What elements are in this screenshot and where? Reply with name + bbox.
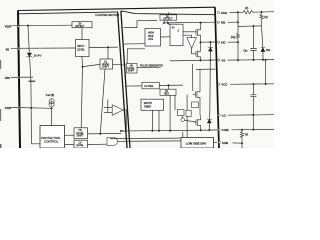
node CSH/R1	[261, 11, 263, 13]
IC package right border	[215, 7, 219, 148]
wire R2 to edge	[253, 11, 274, 14]
wire U11 to driver T1	[183, 35, 192, 37]
node VS 263	[262, 59, 264, 61]
wire HB to vertical	[228, 21, 238, 23]
svg-text:SIDE: SIDE	[148, 36, 154, 38]
node COM 253	[252, 129, 254, 131]
wire COM to edge	[232, 128, 275, 130]
wire LO to edge	[228, 114, 274, 117]
zener diode D1 10.4V	[26, 53, 32, 58]
svg-text:CSH: CSH	[221, 11, 227, 15]
wire comparator feed vertical	[107, 100, 109, 113]
diode DBS wire bottom	[262, 52, 264, 60]
driver triangle T1	[187, 38, 197, 49]
node CSB R3	[241, 142, 243, 144]
wire border to U13	[125, 85, 142, 87]
node VS 253	[253, 59, 255, 61]
node junction comparator bus	[120, 130, 122, 132]
svg-text:LOG: LOG	[148, 39, 153, 41]
svg-text:10.4V: 10.4V	[34, 53, 42, 57]
HV level shift box U6	[74, 128, 88, 139]
comparator U8	[112, 105, 123, 116]
capacitor CBS	[250, 49, 256, 51]
svg-text:CSB: CSB	[222, 141, 228, 145]
capacitor CBS wire top	[253, 26, 255, 48]
node junction VDD/zener	[27, 25, 29, 27]
right chip top border	[121, 11, 215, 15]
node VS 238	[237, 59, 239, 61]
node VCC 265	[265, 83, 267, 85]
svg-text:WATCH: WATCH	[144, 102, 153, 105]
current source I1	[49, 99, 54, 107]
node VS/Q2	[200, 59, 202, 61]
svg-text:PULSE GENERATOR: PULSE GENERATOR	[140, 65, 163, 68]
watchdog box U15	[141, 99, 164, 110]
wire DZ2 top	[208, 112, 210, 119]
wire drop to level shift box	[107, 47, 109, 59]
wire gate Q3	[192, 93, 195, 95]
svg-text:VS: VS	[222, 58, 226, 62]
high side logic box U10	[145, 29, 161, 47]
node VS 265	[265, 59, 267, 61]
IC package outer top border	[18, 7, 215, 10]
node 253 cross	[253, 25, 255, 27]
logic box U11	[170, 24, 183, 46]
wire CSD pin to current source	[11, 106, 52, 109]
mosfet Q3	[193, 69, 200, 115]
wire VDD pin to 5V-detect box	[11, 24, 72, 27]
wire CSH to R2	[230, 11, 243, 13]
wire LO-COM vertical	[252, 115, 254, 130]
pin VS terminal	[218, 59, 220, 61]
node CSH/238	[237, 11, 239, 13]
LV level shift box U7	[74, 140, 88, 148]
scan smudge left edge 1	[0, 60, 1, 69]
wire U10 to U11	[161, 36, 171, 38]
node DZ2 bus	[208, 129, 210, 131]
pin VDD terminal	[18, 25, 20, 27]
svg-text:VIN: VIN	[5, 76, 11, 80]
wire bottom bus	[121, 129, 209, 132]
wire into U18 top	[182, 132, 184, 138]
wire bus to COM pin	[209, 129, 218, 131]
svg-text:SHIFT: SHIFT	[128, 70, 135, 72]
svg-text:CSD: CSD	[5, 106, 12, 110]
svg-text:Icsd (B): Icsd (B)	[46, 94, 55, 97]
node 152 bottom	[151, 130, 153, 132]
wire 5V detect to input level	[81, 28, 83, 40]
wire DZ2 bottom	[208, 123, 210, 130]
HO node wire	[201, 41, 216, 43]
wire vert 152	[151, 110, 153, 130]
svg-text:REG: REG	[164, 93, 169, 95]
small box U16	[178, 109, 185, 115]
resistor R3 vertical	[240, 130, 243, 144]
wire comparator output	[121, 110, 126, 131]
wire zener to VIN tee	[30, 57, 31, 81]
node Q4 source	[200, 129, 202, 131]
pin COM terminal	[218, 129, 220, 131]
svg-text:(Rg): (Rg)	[231, 36, 236, 39]
resistor R1 vertical	[260, 12, 263, 26]
wire T1 out to Q2 gate	[192, 48, 194, 53]
wire elbow to HV shift2	[127, 49, 145, 64]
pin VIN terminal	[18, 76, 20, 78]
node VCC 253	[252, 83, 254, 85]
inverter bubble B1	[181, 118, 184, 121]
right chip 5V detect box U9	[160, 15, 177, 20]
svg-text:(R): (R)	[245, 7, 249, 10]
IC package left border	[18, 11, 20, 149]
wire and gate output to low side box	[118, 140, 182, 142]
wire VS to edge	[228, 59, 275, 62]
zener DZ1	[208, 47, 213, 52]
wire input level to right chip	[89, 46, 118, 49]
HV level shift2 box U12	[127, 64, 138, 74]
wire vert 170	[169, 95, 171, 130]
wire border to U10	[124, 43, 145, 45]
wire U9 to top border	[168, 12, 170, 14]
wire junction to level shift box	[83, 64, 101, 66]
diode DBS	[261, 48, 265, 52]
pin CSH terminal	[217, 11, 219, 13]
wire zener top	[209, 42, 211, 47]
diode DBS wire top	[262, 26, 263, 47]
wire U13 right	[159, 84, 183, 86]
HB rail top	[164, 21, 215, 24]
svg-text:LEVEL: LEVEL	[77, 48, 85, 51]
wire vert 210 upper	[209, 60, 212, 112]
reg box U14	[160, 89, 176, 95]
svg-text:HB: HB	[221, 21, 225, 25]
svg-text:HO: HO	[221, 41, 226, 45]
UV reg box U13	[142, 82, 159, 89]
wire vertical rail down left	[31, 81, 40, 144]
resistor R2	[243, 11, 253, 14]
level shift box U4	[100, 59, 113, 69]
svg-text:LOW SIDE DRV: LOW SIDE DRV	[186, 141, 207, 145]
wire comparator input1	[104, 107, 112, 109]
capacitor CBS wire bottom	[253, 51, 255, 60]
svg-text:LEVEL: LEVEL	[76, 144, 84, 147]
node VS/zener	[209, 59, 211, 61]
wire U12 output with note	[137, 66, 161, 68]
node 159 bottom	[158, 130, 160, 132]
mosfet Q1	[194, 23, 201, 43]
wire protection to HV shift	[65, 134, 75, 136]
wire vertical 192	[192, 64, 194, 91]
wire vert 187 lower	[186, 117, 188, 138]
wire bubble top	[181, 116, 184, 119]
wire vert 175	[174, 95, 176, 110]
wire VIN pin to tee	[11, 76, 33, 78]
wire bubble to Q4	[184, 120, 196, 122]
zener DZ2	[207, 118, 212, 123]
node 170 bus	[169, 130, 171, 132]
right chip left border	[121, 11, 130, 148]
scan smudge bottom left	[0, 144, 2, 148]
svg-text:FLOATING SECTION: FLOATING SECTION	[96, 14, 120, 17]
capacitor C2	[250, 95, 256, 97]
5V detect box U2	[72, 22, 92, 28]
svg-text:VDD: VDD	[5, 24, 12, 28]
svg-text:(R): (R)	[264, 16, 268, 19]
wire LV shift to and gate	[88, 143, 108, 145]
wire bottom second bus	[110, 137, 181, 140]
node HO vertical	[237, 41, 239, 43]
node junction CSD/current source	[51, 107, 53, 109]
pin CSD terminal	[18, 106, 20, 108]
svg-text:CONTROL: CONTROL	[44, 140, 59, 144]
resistor Rg	[237, 33, 240, 39]
wire U18 to CSB pin	[214, 141, 218, 143]
wire border to U9 region	[124, 21, 157, 28]
wire input level bottom	[81, 57, 84, 67]
capacitor C2 wire bottom	[252, 97, 254, 115]
wire current source to protection box	[51, 108, 53, 125]
wire zener bottom	[209, 51, 211, 60]
svg-text:SHIFT: SHIFT	[102, 66, 110, 69]
arrow from U9 right	[167, 20, 169, 25]
node rail/Q1	[200, 22, 202, 24]
wire vert 187	[186, 95, 188, 111]
node U13 branch	[168, 84, 170, 86]
wire level shift to right chip	[113, 64, 127, 65]
low side box U18	[181, 138, 214, 149]
node junction level-shift drop	[107, 46, 109, 48]
pin VCC terminal	[218, 83, 220, 85]
wire long vertical to HV level shift	[81, 67, 82, 128]
node LO 253	[252, 114, 254, 116]
mosfet Q2	[194, 42, 201, 60]
node HO/zener	[209, 41, 211, 43]
wire U11 to gate of Q1	[183, 31, 194, 33]
wire level shift bottom long	[100, 69, 105, 134]
wire zener branch upper	[28, 26, 29, 53]
wire IN pin to input-level box	[11, 47, 76, 49]
left chip right border	[118, 12, 127, 148]
wire HO to vertical	[228, 41, 238, 43]
pin LO terminal	[218, 114, 220, 116]
wire CSB stub down	[241, 143, 243, 148]
pin IN terminal	[18, 47, 20, 49]
wire HV shift output	[88, 132, 122, 135]
wire vert 168	[168, 85, 170, 89]
node COM R3	[241, 129, 243, 131]
small box U19	[192, 102, 199, 108]
and gate G1	[107, 138, 118, 146]
wire protection to LV shift	[65, 143, 75, 145]
svg-text:DETECT: DETECT	[163, 19, 173, 21]
pin CSB terminal	[218, 141, 220, 143]
cross wire 26	[238, 25, 262, 28]
node HB vertical	[237, 21, 239, 23]
wire vert 159	[158, 110, 160, 130]
wire comparator input2	[104, 112, 112, 114]
pin HB terminal	[217, 21, 219, 23]
wire mid right	[196, 68, 215, 70]
svg-text:TIMER: TIMER	[144, 106, 152, 108]
pin HO terminal	[218, 41, 220, 43]
svg-text:UV REG.: UV REG.	[144, 86, 154, 88]
wire VCC to edge	[230, 83, 274, 86]
node junction rail/CSD	[30, 107, 32, 109]
svg-text:COM: COM	[222, 128, 229, 132]
svg-text:5V: 5V	[172, 28, 175, 30]
capacitor C2 wire top	[252, 84, 254, 94]
wire VS to VCC vertical	[265, 60, 267, 84]
arrow from U9 left	[163, 20, 165, 24]
node junction HV out	[99, 133, 101, 135]
vertical 238 with Rg	[237, 12, 239, 60]
protection control box U5	[40, 126, 65, 149]
VS inside rail	[170, 59, 215, 62]
wire CSB to R3	[233, 142, 243, 144]
svg-text:VCC: VCC	[221, 83, 228, 87]
input level box U3	[76, 40, 90, 57]
left chip top border	[19, 12, 119, 14]
node junction at 82	[82, 66, 84, 68]
svg-text:DETECT: DETECT	[75, 26, 85, 28]
small box U17	[186, 110, 191, 116]
svg-text:SHIFT: SHIFT	[77, 134, 85, 137]
mosfet Q4	[194, 115, 201, 130]
svg-text:HIGH: HIGH	[148, 33, 154, 35]
tee bar junction	[29, 80, 36, 82]
node HO/Q1	[200, 41, 202, 43]
scan smudge left edge 2	[0, 109, 1, 121]
